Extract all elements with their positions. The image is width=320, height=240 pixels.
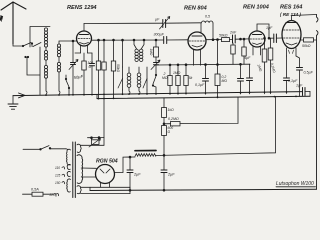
svg-text:2µF: 2µF (167, 173, 175, 177)
svg-text:1µF: 1µF (266, 26, 273, 30)
svg-text:REN 804: REN 804 (184, 6, 208, 12)
T2 primary winding (66, 149, 71, 192)
wire (V1 pin to bus) (75, 52, 81, 54)
wire (grid tap to tube V1) (59, 41, 77, 44)
trimmer (IF left) (118, 67, 123, 95)
svg-text:0,5: 0,5 (205, 15, 210, 19)
resistor 50k (output) (301, 38, 317, 42)
power transformer T2 core (73, 142, 76, 198)
node (268, 37, 270, 39)
tube V4 RES 164 (282, 15, 317, 57)
wire (cathode line y65) (156, 63, 250, 66)
resistor (cathode V1) (82, 53, 86, 95)
node (163, 154, 165, 156)
tube V2 REN 804 (188, 32, 206, 66)
capacitor 2uF (filter 2) (161, 155, 167, 190)
node (155, 39, 157, 41)
svg-text:220: 220 (49, 193, 56, 197)
resistor (below 2nF) (231, 43, 235, 64)
wire (rectifier output) (115, 157, 136, 173)
svg-text:50kΩ: 50kΩ (302, 44, 311, 48)
svg-text:4µF: 4µF (244, 56, 251, 60)
wire (B+ line) (156, 96, 276, 155)
resistor (screen V1) (96, 40, 100, 98)
T2 primary taps (56, 167, 65, 196)
svg-text:2µF: 2µF (133, 173, 141, 177)
node (217, 64, 219, 66)
wire (HV to rectifier anodes) (81, 167, 96, 169)
resistor chain: 0,2M bias resistor 1 (162, 98, 167, 126)
svg-text:50kΩ: 50kΩ (219, 34, 228, 38)
coil L2 (secondary coil) (57, 44, 60, 95)
capacitor (V3 cathode bypass) (247, 64, 253, 94)
node (103, 39, 105, 41)
choke (speaker field) (135, 151, 156, 157)
wire (heater line) (82, 144, 104, 146)
capacitor 0,5uF (V4 cathode) (296, 56, 303, 96)
resistor 50k (plate) (222, 38, 230, 42)
node (grid junction) (72, 40, 74, 42)
svg-text:Ω: Ω (168, 130, 171, 134)
wire (V2 plate line) (206, 39, 222, 41)
wire (81, 193, 130, 195)
node (212, 39, 214, 41)
node (163, 189, 165, 191)
switch (wave change) (65, 75, 69, 95)
antenna (1, 2, 26, 46)
node (113, 39, 115, 41)
wire (pot top line) (88, 137, 105, 139)
capacitor 2nF (coupling) (233, 35, 250, 43)
resistor 0,2M (grid return) (164, 97, 238, 126)
wire (pin join) (88, 52, 93, 54)
svg-text:5k: 5k (189, 76, 193, 80)
svg-text:0,1µF: 0,1µF (288, 79, 298, 83)
border bottom-right corner (276, 186, 316, 188)
resistor (grid V3) (242, 39, 246, 64)
tube V1 RENS 1294 (77, 24, 92, 54)
T2 secondary windings (77, 144, 83, 193)
capacitor (V4 grid bias) (284, 56, 290, 94)
resistor (decoupling 2) (102, 40, 106, 94)
svg-text:50kΩ: 50kΩ (116, 64, 120, 72)
node (163, 123, 165, 125)
svg-text:1MΩ: 1MΩ (173, 71, 181, 75)
wire (box bottom to bus) (39, 47, 41, 95)
wire (230, 38, 233, 40)
node (169, 64, 171, 66)
wire (heater winding to rectifier) (81, 186, 130, 188)
wire (heater loop tie) (89, 187, 91, 190)
node (98, 137, 100, 139)
variable capacitor (tuning, V1 grid) (69, 41, 78, 95)
node (217, 39, 219, 41)
svg-text:Lutsophon W100: Lutsophon W100 (276, 181, 314, 187)
node (122, 39, 124, 41)
potentiometer (hum) (89, 138, 101, 147)
svg-text:REN 1004: REN 1004 (243, 5, 270, 11)
node (264, 37, 266, 39)
svg-text:0,2MΩ: 0,2MΩ (168, 117, 179, 121)
resistor 1M (grid leak V2) (154, 40, 159, 62)
wire (secondary to hum pot) (81, 144, 82, 146)
svg-text:1kΩ: 1kΩ (168, 108, 175, 112)
tube V5 RGN 504 (rectifier) (96, 165, 115, 188)
capacitor 0,1uF (203, 65, 209, 95)
resistor (decoupling) (111, 40, 115, 98)
switch S1 (antenna) (22, 43, 32, 47)
svg-text:125: 125 (55, 174, 61, 178)
node (205, 64, 207, 66)
node (143, 39, 145, 41)
svg-text:0,5µF: 0,5µF (304, 71, 314, 75)
node (91, 137, 93, 139)
resistor 5k (184, 65, 188, 95)
node (240, 63, 242, 65)
trimmer (IF right) (143, 67, 147, 94)
svg-text:( RE 134 ): ( RE 134 ) (280, 12, 301, 17)
svg-text:150: 150 (55, 181, 61, 185)
switch (V2 cathode) (152, 65, 156, 95)
svg-text:0,1µF: 0,1µF (195, 83, 205, 87)
node (177, 64, 179, 66)
svg-text:1MΩ: 1MΩ (149, 49, 153, 56)
svg-text:300µF: 300µF (154, 33, 165, 37)
capacitor 1uF (ground bus end) (303, 88, 311, 97)
svg-text:MΩ: MΩ (162, 76, 168, 80)
wire (top line from V1 plate) (84, 22, 163, 24)
node (133, 39, 135, 41)
fuse 0,5A (23, 192, 57, 196)
node (240, 38, 242, 40)
tube V3 REN 1004 (249, 24, 269, 55)
trimmer capacitor (variable, top line) (160, 17, 202, 30)
node (98, 39, 100, 41)
tap labels (49, 166, 61, 197)
svg-text:RES 164: RES 164 (280, 5, 303, 11)
coil shield box (30, 27, 50, 48)
node dots on buses (45, 91, 297, 99)
svg-text:MΩ: MΩ (222, 79, 228, 83)
svg-text:RENS 1294: RENS 1294 (67, 5, 97, 11)
node (243, 38, 245, 40)
switch S2 (band switch) (25, 43, 41, 76)
resistor 0,2M (215, 40, 220, 98)
svg-text:1µF: 1µF (296, 84, 303, 88)
svg-text:0,5A: 0,5A (31, 188, 39, 192)
svg-text:2nF: 2nF (229, 31, 237, 35)
wire (main signal line V1 to V2) (92, 39, 164, 41)
ground bus (top section) (13, 92, 303, 98)
wire (IF top to line) (122, 40, 124, 67)
svg-text:110: 110 (55, 166, 60, 170)
capacitor 2uF (filter 1) (127, 157, 133, 190)
bias resistor 2 (162, 126, 167, 157)
wire (bus tie) (96, 95, 98, 99)
resistor 2M (168, 65, 172, 94)
svg-text:RGN 504: RGN 504 (96, 159, 118, 165)
speaker jack (right edge, hooks) (317, 15, 319, 190)
IF transformer T1 top winding (134, 40, 144, 62)
node (185, 64, 187, 66)
variable capacitor (V2 grid) (151, 60, 160, 70)
ground (8, 96, 18, 110)
capacitor (bypass) (90, 53, 95, 95)
capacitor 300uF (coupling) (164, 37, 188, 44)
mains switch (23, 146, 66, 151)
B+ bus (lower rail) (97, 96, 310, 98)
IF transformer T1 bottom winding (127, 67, 141, 94)
coil L1 (antenna coil) (44, 28, 47, 95)
resistor 1M (176, 65, 180, 95)
capacitor (V3 cathode) (238, 64, 244, 94)
resistor 0,1M (268, 38, 273, 93)
coil L3 (RF choke 0,5) (201, 21, 213, 40)
wire (129, 187, 131, 193)
capacitor 1uF (coupling) (269, 34, 282, 43)
ground return line (bottom) (90, 189, 317, 190)
node (129, 156, 131, 158)
node (129, 189, 131, 191)
wire (81, 176, 96, 178)
wire (hum pot feed) (103, 94, 105, 145)
resistor 1M (grid leak V4) (262, 38, 267, 94)
